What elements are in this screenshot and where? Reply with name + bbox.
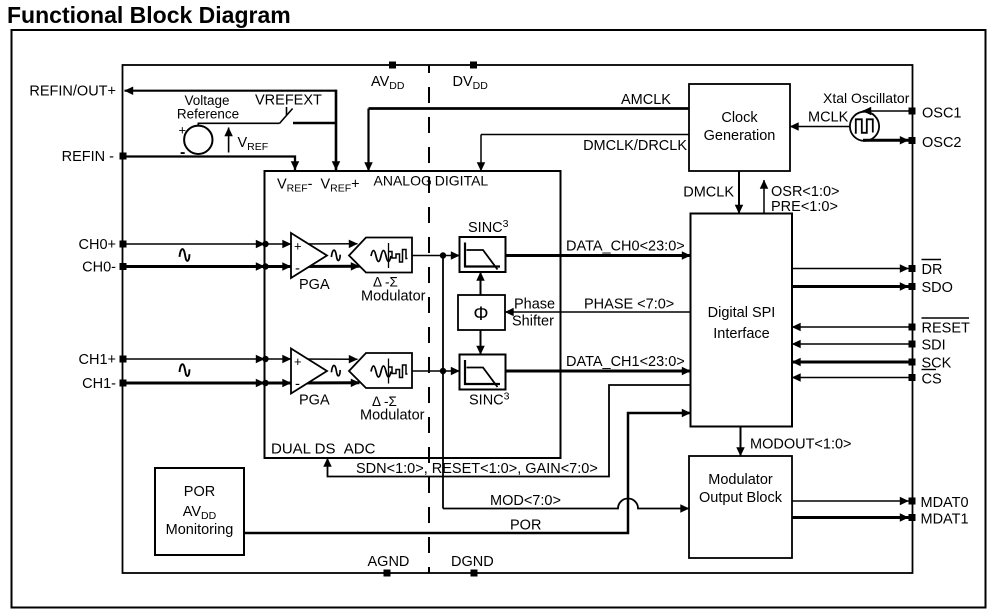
- svg-text:OSR<1:0>: OSR<1:0>: [771, 184, 840, 200]
- analog/digital dashed partition: [428, 65, 430, 573]
- svg-text:+: +: [294, 354, 302, 369]
- sine symbol CH1 input: [180, 364, 190, 376]
- svg-text:PGA: PGA: [299, 277, 330, 293]
- pin SDO: [792, 280, 953, 296]
- svg-text:MCLK: MCLK: [808, 110, 849, 126]
- phase shifter block: [458, 295, 555, 330]
- wire POR: [244, 413, 691, 534]
- svg-text:MOD<7:0>: MOD<7:0>: [490, 493, 561, 509]
- pin square CH0-: [120, 263, 127, 270]
- pin square CH0+: [120, 241, 127, 248]
- PGA CH1: [291, 349, 330, 409]
- chip boundary: [123, 65, 913, 573]
- svg-text:Modulator: Modulator: [360, 408, 425, 424]
- svg-text:AGND: AGND: [368, 554, 410, 570]
- wire modulator CH0 to SINC3: [412, 252, 460, 258]
- wire phase shifter to SINC3 CH0: [480, 272, 482, 295]
- svg-text:DATA_CH1<23:0>: DATA_CH1<23:0>: [566, 354, 685, 370]
- svg-text:POR: POR: [184, 484, 215, 500]
- svg-text:SDN<1:0>, RESET<1:0>, GAIN<7:0: SDN<1:0>, RESET<1:0>, GAIN<7:0>: [356, 461, 598, 477]
- pin SDI: [792, 338, 946, 354]
- voltage reference source: [177, 93, 239, 161]
- SINC3 filter CH0: [460, 218, 509, 272]
- svg-text:MDAT1: MDAT1: [921, 512, 969, 528]
- ground pin AGND: [368, 554, 410, 577]
- svg-text:AMCLK: AMCLK: [621, 92, 671, 108]
- svg-text:-: -: [295, 376, 300, 393]
- wire AMCLK: [369, 92, 690, 171]
- svg-text:Reference: Reference: [177, 107, 239, 122]
- wire DATA_CH1: [506, 354, 691, 371]
- modulator output block: [689, 456, 792, 558]
- wire DMCLK down: [683, 171, 739, 214]
- svg-text:Functional Block Diagram: Functional Block Diagram: [7, 2, 291, 28]
- svg-text:VREF+: VREF+: [321, 177, 360, 195]
- svg-text:-: -: [180, 144, 185, 161]
- wire DATA_CH0: [506, 239, 691, 256]
- svg-text:DMCLK/DRCLK: DMCLK/DRCLK: [583, 138, 687, 154]
- sine symbol CH0 post-PGA: [331, 250, 340, 260]
- svg-text:Δ -Σ: Δ -Σ: [373, 275, 398, 290]
- pin OSC2: [863, 135, 962, 151]
- wire DMCLK/DRCLK: [481, 135, 689, 172]
- clock generation block: [689, 84, 790, 171]
- svg-text:Φ: Φ: [473, 304, 488, 325]
- delta-sigma modulator CH0: [349, 238, 426, 305]
- PGA CH0: [291, 233, 330, 293]
- svg-text:SDO: SDO: [922, 280, 953, 296]
- pin DR: [792, 260, 942, 279]
- POR monitoring block: [155, 468, 244, 555]
- svg-text:CH0+: CH0+: [79, 237, 116, 253]
- pin SCK: [792, 356, 952, 372]
- pin CS: [792, 370, 942, 388]
- svg-text:CH0-: CH0-: [82, 260, 116, 276]
- svg-text:REFIN -: REFIN -: [62, 149, 115, 165]
- pin MDAT0: [792, 495, 969, 511]
- power pin DVDD: [453, 62, 489, 92]
- sine symbol CH1 post-PGA: [331, 365, 340, 375]
- svg-text:Generation: Generation: [704, 128, 776, 144]
- svg-text:+: +: [294, 239, 302, 254]
- svg-text:DVDD: DVDD: [453, 74, 489, 92]
- wire PHASE<7:0>: [505, 297, 691, 313]
- wire REFIN- to VREF-: [124, 157, 295, 171]
- wire OSR/PRE: [764, 180, 840, 215]
- svg-text:OSC1: OSC1: [922, 106, 962, 122]
- pin square REFIN-: [120, 153, 127, 160]
- wire SDN/RESET/GAIN feedback: [328, 385, 691, 477]
- svg-text:CS: CS: [922, 372, 942, 388]
- svg-text:DIGITAL: DIGITAL: [435, 173, 489, 189]
- wire MCLK: [790, 110, 849, 127]
- svg-text:Output Block: Output Block: [699, 490, 783, 506]
- delta-sigma modulator CH1: [349, 353, 425, 424]
- svg-text:VREF: VREF: [238, 135, 269, 153]
- wire MODOUT<1:0>: [741, 427, 852, 457]
- svg-text:DATA_CH0<23:0>: DATA_CH0<23:0>: [566, 239, 685, 255]
- pin square CH1-: [120, 380, 127, 387]
- svg-text:PHASE <7:0>: PHASE <7:0>: [584, 297, 674, 313]
- pin OSC1: [863, 106, 962, 122]
- wire modulator CH1 to SINC3: [412, 368, 460, 374]
- svg-text:VREFEXT: VREFEXT: [255, 93, 322, 109]
- sine symbol CH0 input: [180, 249, 190, 261]
- svg-text:REFIN/OUT+: REFIN/OUT+: [29, 84, 116, 100]
- svg-text:Xtal Oscillator: Xtal Oscillator: [823, 90, 910, 106]
- svg-text:MODOUT<1:0>: MODOUT<1:0>: [750, 437, 852, 453]
- MOD bus vertical: [442, 256, 444, 509]
- svg-text:CH1+: CH1+: [79, 352, 116, 368]
- svg-text:Phase: Phase: [514, 297, 555, 313]
- ground pin DGND: [451, 554, 494, 577]
- pin RESET: [792, 318, 970, 337]
- svg-text:Digital SPI: Digital SPI: [708, 305, 776, 321]
- svg-text:SINC3: SINC3: [469, 391, 510, 409]
- wire REFIN/OUT+ to VREF+: [125, 90, 337, 92]
- svg-text:SDI: SDI: [922, 338, 946, 354]
- SINC3 filter CH1: [460, 355, 510, 409]
- svg-text:DGND: DGND: [451, 554, 494, 570]
- wire CH1-: [124, 380, 360, 386]
- switch VREFEXT: [198, 93, 336, 126]
- wire CH1+: [124, 356, 358, 362]
- ADC block DUAL DS ADC: [265, 171, 561, 458]
- pin square CH1+: [120, 356, 127, 363]
- VREF arrow: [229, 128, 269, 154]
- svg-text:DUAL DS ADC: DUAL DS ADC: [271, 441, 376, 458]
- svg-text:Shifter: Shifter: [512, 314, 554, 330]
- svg-text:DMCLK: DMCLK: [683, 185, 734, 201]
- svg-text:CH1-: CH1-: [82, 376, 116, 392]
- svg-text:Clock: Clock: [721, 110, 758, 126]
- svg-text:DR: DR: [922, 262, 943, 278]
- svg-text:-: -: [295, 260, 300, 277]
- svg-text:ANALOG: ANALOG: [374, 173, 432, 189]
- wire MOD<7:0> with hop: [443, 493, 689, 509]
- svg-text:Interface: Interface: [713, 326, 769, 342]
- svg-text:VREF-: VREF-: [277, 177, 313, 195]
- wire CH0-: [124, 263, 360, 269]
- svg-text:MDAT0: MDAT0: [921, 495, 969, 511]
- svg-text:Modulator: Modulator: [708, 472, 773, 488]
- svg-text:POR: POR: [510, 518, 541, 534]
- pin MDAT1: [792, 512, 969, 528]
- svg-text:PGA: PGA: [299, 393, 330, 409]
- svg-text:AVDD: AVDD: [371, 74, 405, 92]
- svg-text:RESET: RESET: [922, 321, 970, 337]
- xtal oscillator: [823, 90, 910, 141]
- power pin AVDD: [371, 62, 405, 92]
- svg-text:SINC3: SINC3: [468, 218, 509, 236]
- svg-text:OSC2: OSC2: [922, 135, 962, 151]
- digital SPI interface block: [691, 214, 793, 427]
- svg-text:Monitoring: Monitoring: [166, 522, 234, 538]
- svg-text:Modulator: Modulator: [361, 289, 426, 305]
- wire phase shifter to SINC3 CH1: [480, 330, 482, 355]
- wire CH0+: [124, 241, 358, 247]
- svg-text:+: +: [179, 123, 187, 138]
